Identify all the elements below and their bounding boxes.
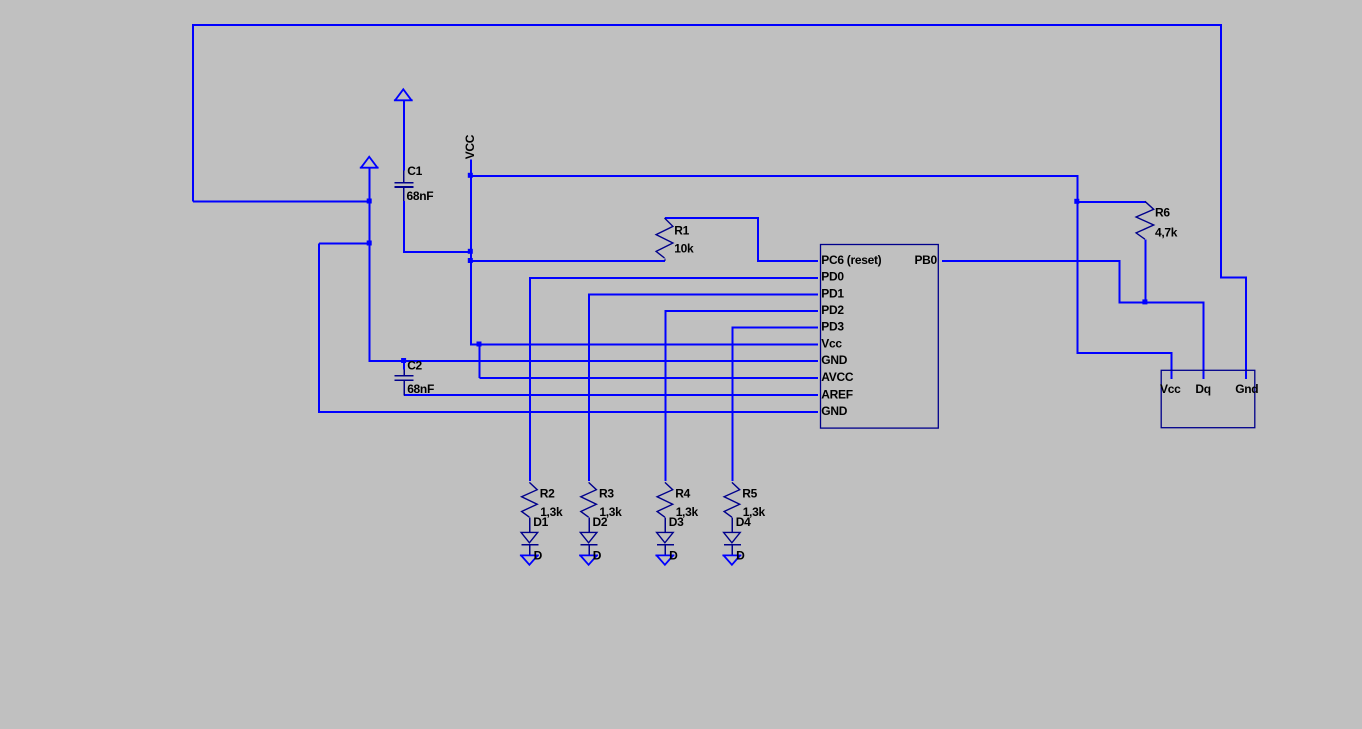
svg-text:D1: D1	[533, 515, 548, 529]
svg-text:GND: GND	[821, 353, 847, 367]
svg-text:R1: R1	[674, 223, 689, 237]
svg-text:R6: R6	[1155, 206, 1170, 220]
svg-text:VCC: VCC	[463, 134, 477, 159]
svg-text:PD3: PD3	[821, 320, 844, 334]
svg-text:PD1: PD1	[821, 286, 844, 300]
svg-text:AREF: AREF	[821, 387, 852, 401]
svg-text:10k: 10k	[674, 242, 694, 256]
svg-text:PC6 (reset): PC6 (reset)	[821, 253, 881, 267]
svg-text:R4: R4	[675, 486, 690, 500]
svg-text:D3: D3	[669, 515, 684, 529]
svg-text:D: D	[669, 548, 678, 562]
svg-text:PD0: PD0	[821, 270, 844, 284]
svg-text:PB0: PB0	[914, 253, 937, 267]
svg-text:C2: C2	[407, 359, 422, 373]
svg-text:Gnd: Gnd	[1235, 382, 1258, 396]
svg-text:68nF: 68nF	[407, 382, 434, 396]
svg-text:D: D	[534, 548, 543, 562]
svg-text:D4: D4	[736, 515, 751, 529]
svg-text:R5: R5	[742, 486, 757, 500]
svg-text:GND: GND	[821, 404, 847, 418]
svg-text:D: D	[736, 548, 745, 562]
svg-text:D: D	[593, 548, 602, 562]
svg-text:PD2: PD2	[821, 303, 844, 317]
svg-text:R3: R3	[599, 486, 614, 500]
svg-text:68nF: 68nF	[407, 189, 434, 203]
svg-text:Dq: Dq	[1195, 382, 1210, 396]
svg-text:R2: R2	[540, 486, 555, 500]
svg-text:AVCC: AVCC	[821, 370, 854, 384]
svg-text:D2: D2	[593, 515, 608, 529]
svg-text:4,7k: 4,7k	[1155, 225, 1178, 239]
svg-text:Vcc: Vcc	[1160, 382, 1181, 396]
svg-text:Vcc: Vcc	[821, 336, 842, 350]
svg-text:C1: C1	[407, 164, 422, 178]
